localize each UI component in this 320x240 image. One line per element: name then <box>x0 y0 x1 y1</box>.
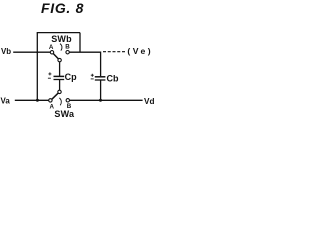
wire left vertical (Va rail up to bracket) <box>36 33 38 101</box>
svg-text:(Ve): (Ve) <box>127 46 153 56</box>
svg-text:B: B <box>65 44 70 51</box>
capacitor Cp top plate <box>54 75 65 77</box>
junction dot on Va rail at left vertical <box>36 99 39 102</box>
switch SWa terminal B contact circle <box>66 99 69 102</box>
dashed line to Ve <box>103 51 126 53</box>
svg-text:SWb: SWb <box>51 34 72 44</box>
wire Va lead to SWa terminal A <box>15 99 49 101</box>
svg-text:Vb: Vb <box>1 47 11 56</box>
junction dot at Vb wire crossing <box>36 51 38 53</box>
svg-text:Cp: Cp <box>65 72 77 82</box>
switch SWb blade arm <box>53 54 58 59</box>
switch SWa throw arc <box>59 98 61 105</box>
wire bracket top horizontal <box>37 32 80 34</box>
switch SWb terminal A contact circle <box>50 51 53 54</box>
switch SWb pole contact circle <box>58 58 61 61</box>
wire SWb terminal B to right corner and down to Cb <box>69 52 100 76</box>
capacitor Cb minus polarity mark <box>91 78 94 80</box>
wire Cb bottom plate down to rail <box>100 80 102 100</box>
junction dot bottom rail at Cb branch <box>99 99 102 102</box>
switch SWa terminal A contact circle <box>49 99 52 102</box>
wire bracket right vertical down to SWb terminal B wire <box>79 33 81 53</box>
svg-text:Va: Va <box>1 96 11 105</box>
switch SWb throw arc <box>60 44 62 51</box>
wire Cp down to SWa pole <box>59 80 61 91</box>
switch SWb terminal B contact circle <box>66 51 69 54</box>
svg-text:SWa: SWa <box>54 109 75 119</box>
svg-text:FIG. 8: FIG. 8 <box>41 0 84 16</box>
switch SWa pole contact circle <box>58 90 61 93</box>
capacitor Cp plus polarity mark <box>48 72 51 75</box>
svg-text:Vd: Vd <box>144 97 154 106</box>
wire bottom rail SWa terminal B to Vd <box>70 99 143 101</box>
capacitor Cb top plate <box>95 76 106 78</box>
capacitor Cp bottom plate <box>54 79 65 81</box>
wire Vb lead to SWb terminal A <box>13 51 50 53</box>
capacitor Cb plus polarity mark <box>91 74 94 77</box>
capacitor Cb bottom plate <box>95 79 106 81</box>
capacitor Cp minus polarity mark <box>48 77 51 79</box>
switch SWa blade arm <box>52 93 58 99</box>
svg-text:Cb: Cb <box>107 74 119 84</box>
wire SWb pole down to capacitor Cp <box>59 62 61 76</box>
